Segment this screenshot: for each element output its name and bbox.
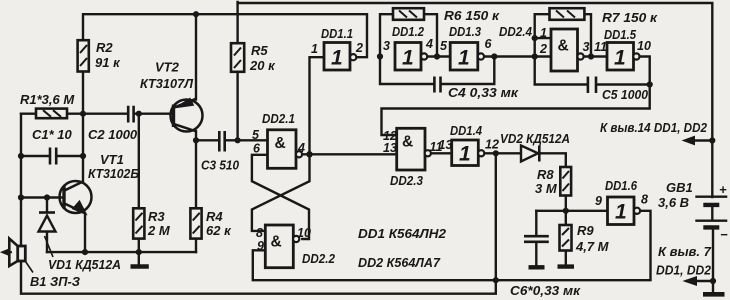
svg-text:10: 10 — [297, 226, 311, 240]
wire R2 top / y14 rail / DD1.1 output riser — [83, 14, 367, 57]
wire ground row y252 — [47, 251, 196, 253]
svg-text:DD1.6: DD1.6 — [605, 178, 638, 193]
resistor R6 — [393, 8, 424, 20]
resistor R5 — [231, 43, 244, 72]
sound emitter B1 — [1, 239, 33, 273]
svg-text:2: 2 — [539, 42, 547, 56]
svg-text:R8: R8 — [537, 167, 554, 182]
transistor VT2 — [171, 98, 203, 131]
wire DD2.4 pin1 stub — [535, 37, 551, 39]
wire C4 loop — [380, 57, 494, 85]
node VT2 emitter rail junction — [193, 11, 199, 17]
resistor R2 — [78, 40, 89, 71]
svg-text:C3 510: C3 510 — [201, 158, 240, 173]
wire DD2.2 pin9 feedback from DD1.6 output — [253, 211, 651, 280]
svg-text:DD2.1: DD2.1 — [262, 111, 295, 126]
svg-text:R1*3,6 М: R1*3,6 М — [20, 92, 75, 107]
resistor R7 — [550, 8, 585, 20]
svg-text:C6*0,33 мк: C6*0,33 мк — [510, 283, 581, 298]
ground at R3 — [131, 252, 149, 266]
svg-text:3: 3 — [383, 39, 390, 53]
node base row left junction — [18, 194, 24, 200]
svg-text:DD2.3: DD2.3 — [390, 173, 424, 188]
wire R8 bottom lead — [565, 196, 567, 211]
wire VT2 emitter column — [195, 14, 197, 99]
svg-text:20 к: 20 к — [249, 58, 276, 73]
svg-text:К выв. 7: К выв. 7 — [658, 244, 712, 259]
transistor VT1 — [60, 181, 92, 215]
node VT1 emitter ground junction — [82, 249, 88, 255]
ground at battery minus — [703, 292, 725, 297]
wire to pin 7 branch — [687, 280, 713, 282]
svg-text:1: 1 — [459, 143, 471, 166]
logic gate DD2.4 — [551, 29, 584, 71]
wire R6 loop — [380, 14, 437, 56]
svg-text:3,6 В: 3,6 В — [658, 195, 689, 210]
logic gate DD2.3 — [397, 128, 431, 170]
node VT2 collector junction — [193, 137, 199, 143]
wire R5 column — [236, 2, 238, 140]
wire latch output row to DD2.3 pin13 — [302, 153, 397, 155]
svg-text:5: 5 — [440, 39, 448, 53]
wire VT1 base row — [21, 196, 64, 198]
svg-text:DD1.5: DD1.5 — [604, 27, 637, 42]
wire DD1.1 input riser — [310, 57, 325, 154]
node R8 R9 C6 junction — [563, 208, 569, 214]
capacitor C4 — [434, 77, 440, 93]
svg-text:8: 8 — [641, 193, 648, 207]
node feedback bottom junction — [493, 277, 499, 283]
wire C3 row y140.3 — [196, 139, 268, 141]
svg-text:VD1 КД512А: VD1 КД512А — [48, 257, 121, 272]
node R1 R2 C2 junction — [80, 111, 86, 117]
wire DD1.4 output to VD2 — [484, 152, 521, 154]
arrow to pin 14 DD1,DD2 — [683, 136, 695, 144]
svg-text:1: 1 — [614, 47, 626, 70]
ground under R9 — [558, 264, 575, 268]
svg-text:DD1 К564ЛН2: DD1 К564ЛН2 — [358, 226, 447, 241]
svg-text:КТ3102Б: КТ3102Б — [88, 166, 139, 181]
svg-text:DD2.2: DD2.2 — [302, 251, 336, 266]
wire DD2.4 out to DD1.5 — [584, 55, 608, 57]
wire VT1 emitter lead down — [84, 214, 86, 253]
svg-text:62 к: 62 к — [206, 223, 232, 238]
wire C6 leads — [535, 211, 537, 265]
svg-text:DD1.2: DD1.2 — [392, 24, 425, 39]
node DD1.4 output junction — [493, 150, 499, 156]
logic gate DD1.5 — [607, 43, 640, 71]
wire VD2 to R8 corner — [540, 153, 566, 167]
resistor R8 — [560, 167, 571, 196]
svg-text:R2: R2 — [96, 40, 113, 55]
svg-text:C5 1000: C5 1000 — [602, 87, 649, 102]
resistor R1 — [36, 109, 67, 119]
capacitor C3 — [219, 131, 224, 152]
node DD2.4 pin2 junction — [532, 53, 538, 59]
svg-text:B1 ЗП-З: B1 ЗП-З — [30, 274, 81, 289]
svg-text:5: 5 — [252, 128, 260, 142]
svg-text:1: 1 — [402, 47, 414, 70]
svg-text:DD1.4: DD1.4 — [450, 123, 483, 138]
svg-text:91 к: 91 к — [95, 55, 121, 70]
wire row y210.8 to DD1.6 pin9 — [536, 210, 607, 212]
node DD1.3 output junction — [491, 53, 497, 59]
svg-text:3 М: 3 М — [535, 181, 558, 196]
svg-text:R5: R5 — [251, 43, 268, 58]
svg-text:C2 1000: C2 1000 — [88, 127, 138, 142]
svg-text:13: 13 — [439, 138, 453, 152]
svg-text:1: 1 — [311, 42, 318, 56]
svg-text:3: 3 — [583, 40, 590, 54]
wire R9 leads — [565, 211, 567, 265]
svg-text:GB1: GB1 — [666, 180, 693, 195]
capacitor C6 — [524, 236, 549, 242]
node C1 left junction — [18, 153, 24, 159]
svg-text:R3: R3 — [148, 209, 165, 224]
diode VD2 — [521, 146, 539, 162]
svg-text:6: 6 — [485, 37, 493, 51]
wire R3 column — [138, 114, 140, 252]
wire oscillator row DD1.3 to DD2.4 — [484, 55, 551, 57]
wire oscillator row DD1.2 to DD1.3 — [427, 55, 450, 57]
svg-text:КТ3107Л: КТ3107Л — [140, 76, 194, 91]
svg-text:6: 6 — [253, 142, 261, 156]
svg-text:1: 1 — [540, 26, 547, 40]
svg-text:&: & — [275, 135, 286, 152]
resistor R9 — [560, 225, 572, 251]
svg-text:12: 12 — [485, 138, 499, 152]
node C5 right junction — [647, 81, 653, 87]
svg-text:9: 9 — [257, 239, 264, 253]
svg-text:VT1: VT1 — [100, 152, 124, 167]
svg-text:2 М: 2 М — [147, 223, 171, 238]
wire base row y113.7 R1-C2-VT2 base — [21, 112, 172, 114]
svg-text:8: 8 — [256, 226, 263, 240]
node VD1 top junction — [44, 194, 50, 200]
battery GB1 — [695, 197, 727, 228]
node C2 R3 junction — [136, 111, 142, 117]
resistor R4 — [190, 208, 201, 238]
svg-text:&: & — [402, 134, 413, 151]
svg-text:4,7 М: 4,7 М — [575, 239, 610, 254]
node R5 bottom junction — [235, 137, 241, 143]
node DD2.4 output junction — [588, 53, 594, 59]
wire R7 loop — [535, 14, 591, 56]
svg-text:1: 1 — [615, 201, 627, 224]
wire DD2.3 out to DD1.4 — [431, 152, 452, 154]
ground under C6 — [529, 265, 545, 269]
node DD2.4 pin1 junction — [532, 35, 538, 41]
svg-text:4: 4 — [425, 37, 433, 51]
wire latch cross coupling B (out4 to pin8) — [252, 154, 310, 231]
resistor R3 — [133, 208, 144, 238]
logic gate DD1.6 — [608, 197, 641, 225]
svg-text:&: & — [271, 234, 282, 251]
node R3 ground junction — [136, 249, 142, 255]
svg-text:13: 13 — [383, 141, 397, 155]
logic gate DD1.2 — [395, 43, 427, 71]
wire R2 bottom lead — [82, 71, 84, 114]
svg-text:DD1, DD2: DD1, DD2 — [656, 263, 712, 278]
wire positive top rail to battery — [238, 3, 713, 197]
wire latch cross coupling A (pin6 to pin10) — [252, 155, 309, 239]
svg-text:10: 10 — [637, 39, 651, 53]
svg-text:−: − — [720, 227, 728, 242]
logic gate DD1.3 — [450, 43, 484, 71]
wire to pin 14 branch — [687, 139, 712, 141]
svg-text:R6 150 к: R6 150 к — [444, 8, 500, 23]
wire column x83 down to VT1 collector — [82, 114, 84, 183]
wire battery to ground rail segment — [712, 228, 714, 293]
svg-text:11: 11 — [594, 40, 607, 54]
svg-text:DD2 К564ЛА7: DD2 К564ЛА7 — [358, 255, 441, 270]
diode VD1 — [39, 213, 56, 258]
svg-text:4: 4 — [297, 141, 305, 155]
svg-text:VD2 КД512А: VD2 КД512А — [500, 131, 570, 146]
capacitor C2 — [128, 106, 133, 123]
logic gate DD2.1 — [268, 130, 303, 169]
svg-text:9: 9 — [595, 194, 602, 208]
svg-text:+: + — [719, 182, 727, 197]
svg-text:C1* 10: C1* 10 — [32, 127, 73, 142]
node pin14 branch junction — [709, 137, 715, 143]
capacitor C1 — [50, 148, 56, 165]
wire left column, bottom rail, riser x495.8 — [21, 114, 496, 294]
arrow to pin 7 DD1,DD2 — [684, 277, 697, 286]
logic gate DD1.4 — [452, 140, 485, 166]
logic gate DD2.2 — [265, 225, 299, 268]
svg-text:DD2.4: DD2.4 — [499, 24, 533, 39]
svg-text:1: 1 — [331, 47, 343, 70]
node DD2.1 output junction — [306, 151, 312, 157]
node C1 right junction — [80, 153, 86, 159]
wire VD1 stubs — [46, 198, 48, 253]
node DD1.2 output junction — [434, 53, 440, 59]
svg-text:R4: R4 — [206, 209, 223, 224]
svg-text:C4 0,33 мк: C4 0,33 мк — [448, 85, 520, 100]
svg-text:1: 1 — [458, 47, 470, 70]
svg-text:2: 2 — [355, 41, 363, 55]
svg-text:&: & — [558, 38, 569, 55]
wire DD1.5 output down and left to DD2.3 pin12 — [382, 57, 650, 136]
capacitor C5 — [588, 77, 596, 94]
svg-text:R7 150 к: R7 150 к — [602, 10, 658, 25]
svg-text:VT2: VT2 — [155, 60, 180, 75]
wire R4 column — [195, 140, 197, 252]
node DD1.2 input junction — [377, 53, 383, 59]
svg-text:DD1.1: DD1.1 — [321, 26, 353, 41]
svg-text:R9: R9 — [577, 223, 594, 238]
wire C1 row — [21, 155, 83, 157]
svg-text:DD1.3: DD1.3 — [449, 24, 482, 39]
wire C5 loop — [535, 57, 650, 85]
logic gate DD1.1 — [324, 43, 356, 71]
wire VT2 collector lead — [195, 131, 197, 140]
node pin7 branch junction — [710, 278, 716, 284]
svg-text:К выв.14 DD1, DD2: К выв.14 DD1, DD2 — [600, 120, 708, 135]
